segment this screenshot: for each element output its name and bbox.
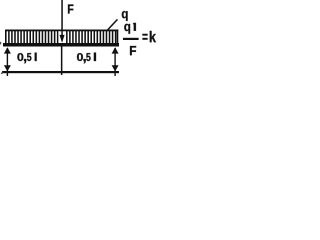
dimension arrow right up head <box>112 47 119 53</box>
equals sign <box>143 34 148 40</box>
right dim l <box>94 53 96 61</box>
left dim comma <box>24 59 26 63</box>
right dim comma <box>84 59 86 63</box>
baseline left end hook <box>1 71 4 74</box>
fraction numerator q <box>124 24 130 34</box>
right dim digit 5 <box>86 53 90 61</box>
left dim digit 5 <box>27 53 31 61</box>
force F halo <box>58 31 65 43</box>
right dim digit 0 <box>77 53 83 61</box>
wire: q leader line <box>107 19 118 30</box>
label q (load) <box>122 11 128 21</box>
beam left end mark <box>0 42 1 45</box>
dimension arrow left down head <box>4 65 11 71</box>
dimension arrow left shaft <box>7 48 8 76</box>
fraction bar <box>123 38 139 40</box>
left dim l <box>35 53 37 61</box>
fraction numerator l <box>134 23 136 31</box>
dimension arrow left up head <box>4 47 11 53</box>
force F arrow shaft <box>61 0 63 37</box>
baseline <box>2 71 119 73</box>
distributed load q: left edge <box>5 30 7 44</box>
distributed load q: top line <box>5 30 118 32</box>
label k <box>150 31 156 42</box>
distributed load q: right edge <box>117 30 119 44</box>
dimension arrow right down head <box>112 65 119 71</box>
left dim digit 0 <box>17 53 23 61</box>
force F arrowhead <box>60 35 65 43</box>
dimension arrow right shaft <box>114 48 115 76</box>
beam <box>3 43 119 47</box>
fraction denominator F <box>130 46 136 55</box>
dimension center divider <box>61 47 63 76</box>
distributed load q: hatch lines <box>8 31 116 44</box>
label F (force) <box>68 5 73 14</box>
